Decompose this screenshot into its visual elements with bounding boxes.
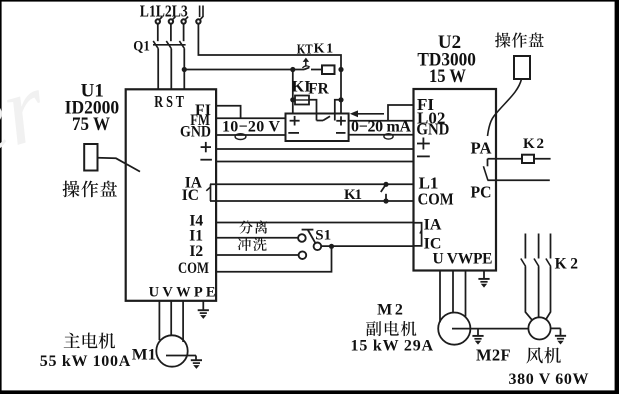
- wire T tap to KT: [184, 69, 292, 71]
- contact K1 interlock: [381, 182, 389, 204]
- contact PA-PC: [483, 159, 488, 181]
- node N terminal: [196, 6, 203, 24]
- wire U1 FM to isolator: [216, 117, 286, 119]
- wire minus line: [216, 161, 414, 163]
- ground M2 tap: [472, 329, 483, 344]
- label operator panel 1: [63, 181, 118, 198]
- label L1 L2 L3 supply: [140, 2, 188, 21]
- wire M2 to fan: [452, 328, 529, 330]
- coil K1 box: [311, 65, 335, 74]
- pin U1 plus: [201, 142, 211, 152]
- jumper U1 IA-IC link: [206, 184, 210, 201]
- label 380 V 60W: [509, 371, 589, 388]
- wire isolator to U2 GND: [349, 134, 414, 136]
- node L1 terminal: [156, 17, 163, 24]
- label 55 kW 100A: [40, 353, 131, 370]
- cable marker right: [384, 134, 393, 139]
- label 10-20 V: [222, 119, 280, 136]
- operator panel 1 box: [84, 144, 97, 171]
- svg-text:K1: K1: [344, 187, 362, 203]
- motor M2: [438, 313, 470, 345]
- switch S1: [298, 227, 331, 259]
- node L2 terminal: [169, 17, 176, 24]
- wire fan phase 2: [538, 267, 540, 318]
- isolator polarity marks: [288, 116, 346, 133]
- cable marker left: [235, 134, 246, 140]
- wire S phase: [170, 49, 172, 90]
- inverter U2 box: [414, 89, 497, 271]
- svg-text:GND: GND: [180, 123, 211, 140]
- label K1 coil: [314, 41, 334, 56]
- label M2F: [476, 346, 511, 365]
- node T tap junction: [182, 67, 187, 72]
- pin U1 FM: [190, 112, 210, 129]
- wire U1 GND to isolator: [216, 134, 286, 136]
- label U1 title: [65, 80, 120, 135]
- svg-text:Q1: Q1: [133, 39, 150, 55]
- wire U1 V phase: [170, 301, 172, 336]
- label FR: [308, 80, 329, 97]
- svg-text:UVWPE: UVWPE: [149, 285, 216, 301]
- contact KT time-delay: [293, 58, 310, 70]
- motor fan: [528, 317, 550, 339]
- label aux motor: [366, 321, 416, 336]
- motor M1: [132, 335, 188, 366]
- pin U2 L02: [417, 109, 445, 128]
- pin U1 GND: [180, 123, 211, 140]
- wire IC to COM: [210, 200, 414, 202]
- pin U2 FI: [417, 95, 434, 114]
- pin U2 minus: [417, 155, 430, 157]
- coil KI box: [293, 96, 309, 105]
- svg-text:I2: I2: [189, 243, 203, 260]
- wire L3 drop: [183, 24, 185, 41]
- svg-text:PA: PA: [471, 139, 493, 158]
- label flush: [238, 238, 267, 251]
- pin U1 I2: [189, 243, 203, 260]
- pin U1 IC: [182, 187, 199, 204]
- label operator panel 2: [495, 33, 544, 48]
- wire fan to ground: [550, 328, 561, 335]
- contactor K2 poles: [521, 234, 578, 273]
- wire M1 to ground: [166, 356, 196, 360]
- label fan: [526, 347, 560, 363]
- svg-text:55 kW 100A: 55 kW 100A: [40, 353, 131, 370]
- node K1 right junction: [338, 67, 343, 72]
- node KI top junction: [290, 97, 295, 102]
- coil K2 box: [522, 155, 534, 163]
- wire U1 FI jumper: [216, 106, 241, 119]
- ground U1 PE: [198, 301, 209, 319]
- pin U1 I4: [189, 212, 203, 229]
- pin U1 FI: [195, 102, 211, 119]
- wire L1 drop: [157, 24, 159, 41]
- wire isolator to U2 L02: [349, 120, 414, 122]
- pin U1 IA: [185, 175, 203, 192]
- node L3 terminal: [181, 17, 188, 24]
- wire U2 W phase: [465, 271, 467, 317]
- wire T phase: [183, 49, 185, 90]
- wire N drop and run to relay rail: [198, 24, 341, 70]
- wire operator panel 1 cable: [98, 158, 141, 172]
- pin U2 plus: [417, 138, 430, 150]
- pin U1 COM: [178, 260, 209, 277]
- svg-text:S1: S1: [315, 227, 331, 243]
- svg-text:R S T: R S T: [154, 92, 184, 111]
- pin U2 PC: [471, 183, 492, 202]
- ground U2 PE: [478, 271, 489, 288]
- pin U2 IC: [424, 235, 442, 252]
- wire operator panel 2 cable: [488, 79, 522, 136]
- label U2 title: [417, 32, 476, 87]
- node FR right junction: [338, 97, 343, 102]
- node KT junction: [290, 67, 295, 72]
- label KT: [297, 42, 314, 57]
- wire PA row: [488, 158, 551, 160]
- svg-text:380 V 60W: 380 V 60W: [509, 371, 589, 388]
- svg-text:U VWPE: U VWPE: [433, 250, 493, 267]
- svg-text:COM: COM: [418, 189, 454, 208]
- wire I1 to S1: [216, 237, 298, 239]
- svg-text:M2: M2: [377, 302, 403, 319]
- pin U2 COM: [418, 189, 454, 208]
- wire U2 FI jumper: [388, 105, 414, 121]
- svg-text:M2F: M2F: [476, 346, 511, 365]
- svg-text:0−20 mA: 0−20 mA: [351, 119, 411, 136]
- label U1 UVWPE: [149, 285, 216, 301]
- wire S1 to U2 IC: [321, 245, 414, 247]
- svg-text:L1L2L3: L1L2L3: [140, 2, 188, 21]
- wire plus line: [216, 148, 414, 150]
- wire fan phase 1: [525, 267, 532, 320]
- heater FR element: [309, 100, 341, 121]
- wire L2 drop: [170, 24, 172, 41]
- wire R phase: [157, 49, 159, 90]
- pin U2 IA: [424, 216, 442, 233]
- wire U1 U phase: [158, 301, 160, 340]
- isolator box: [286, 114, 349, 142]
- svg-text:K2: K2: [523, 136, 544, 152]
- svg-text:GND: GND: [416, 120, 449, 139]
- label M2 title: [377, 302, 403, 319]
- wire COM link: [216, 246, 332, 271]
- svg-text:10−20 V: 10−20 V: [222, 119, 280, 136]
- svg-text:COM: COM: [178, 260, 209, 277]
- label KI: [292, 79, 311, 96]
- wire fan phase 3: [546, 267, 551, 320]
- breaker Q1: [133, 39, 185, 55]
- ground M1: [191, 360, 202, 368]
- svg-text:er: er: [0, 49, 58, 179]
- pin U2 GND: [416, 120, 449, 139]
- label 0-20 mA: [351, 119, 411, 136]
- wire I2 to S1: [216, 254, 299, 256]
- wire PC row: [488, 179, 550, 181]
- wire relay left branch: [292, 70, 294, 114]
- jumper U2 IA-IC link: [414, 223, 422, 246]
- svg-text:M1: M1: [132, 346, 156, 363]
- arrow signal direction: [350, 110, 384, 117]
- label U1 R S T: [154, 92, 184, 111]
- label K1 contact: [344, 187, 362, 203]
- pin U1 minus: [200, 159, 212, 161]
- label 15 kW 29A: [351, 338, 434, 355]
- wire U2 U phase: [439, 271, 441, 323]
- svg-text:PC: PC: [471, 183, 492, 202]
- svg-text:IA: IA: [424, 216, 442, 233]
- wire U2 V phase: [452, 271, 454, 313]
- svg-text:KT: KT: [297, 42, 314, 57]
- node S1 junction: [329, 244, 334, 249]
- wire IA to L1: [210, 183, 414, 185]
- wire U1 W phase: [182, 301, 184, 342]
- label K2 coil: [523, 136, 544, 152]
- pin U2 PA: [471, 139, 493, 158]
- wire I4 line: [216, 222, 414, 224]
- svg-text:IC: IC: [182, 187, 199, 204]
- pin U2 L1: [419, 174, 439, 193]
- operator panel 2 box: [514, 56, 530, 79]
- svg-text:15 W: 15 W: [429, 66, 466, 87]
- pin U1 I1: [189, 228, 203, 245]
- inverter U1 box: [126, 89, 216, 300]
- wire relay right branch: [340, 70, 342, 114]
- svg-text:K2: K2: [555, 256, 579, 273]
- label U2 UVWPE: [433, 250, 493, 267]
- svg-text:75 W: 75 W: [72, 114, 110, 135]
- label main motor: [64, 333, 115, 349]
- svg-text:15 kW 29A: 15 kW 29A: [351, 338, 434, 355]
- label separate: [239, 220, 267, 233]
- svg-text:FR: FR: [308, 80, 329, 97]
- ground fan: [555, 336, 566, 344]
- svg-text:K1: K1: [314, 41, 334, 56]
